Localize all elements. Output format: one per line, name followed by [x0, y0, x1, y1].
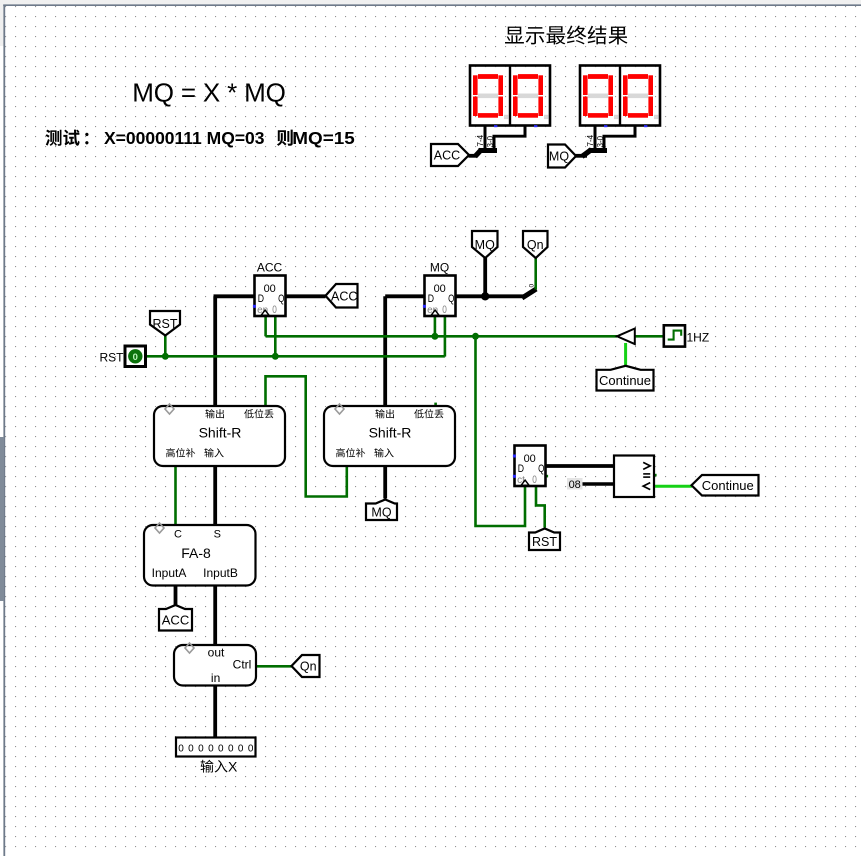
svg-text:Shift-R: Shift-R [199, 425, 242, 441]
svg-text:RST: RST [532, 535, 557, 549]
svg-text:0: 0 [238, 744, 244, 755]
svg-text:ACC: ACC [434, 149, 460, 163]
svg-text:Shift-R: Shift-R [369, 425, 412, 441]
svg-text:Continue: Continue [599, 373, 651, 388]
svg-text:C: C [174, 529, 182, 541]
svg-text:0: 0 [133, 352, 138, 363]
svg-text:MQ = X * MQ: MQ = X * MQ [132, 78, 285, 108]
svg-text:0: 0 [529, 284, 536, 288]
svg-text:0: 0 [188, 744, 194, 755]
svg-text:MQ: MQ [371, 505, 391, 519]
svg-text:Continue: Continue [702, 478, 754, 493]
svg-text:D: D [428, 293, 434, 305]
svg-text:out: out [208, 646, 225, 660]
svg-text:D: D [258, 293, 264, 305]
svg-text:S: S [214, 529, 221, 541]
svg-text:Qn: Qn [527, 238, 544, 252]
svg-text:X: X [228, 759, 238, 775]
svg-text:MQ: MQ [549, 150, 569, 164]
svg-text:00: 00 [434, 283, 446, 295]
svg-text:InputB: InputB [203, 566, 238, 580]
svg-text:0: 0 [178, 744, 184, 755]
svg-text:0: 0 [218, 744, 224, 755]
svg-text:InputA: InputA [152, 566, 187, 580]
svg-text:Ctrl: Ctrl [233, 658, 252, 672]
svg-text:ACC: ACC [257, 261, 283, 275]
svg-text:0: 0 [198, 744, 204, 755]
svg-text:0: 0 [272, 304, 277, 316]
svg-text:3-0: 3-0 [486, 135, 495, 147]
svg-text:1HZ: 1HZ [687, 331, 710, 345]
svg-text:3-0: 3-0 [596, 135, 605, 147]
svg-text:MQ=15: MQ=15 [292, 128, 355, 148]
svg-text:in: in [211, 671, 220, 685]
svg-text:RST: RST [153, 317, 178, 331]
svg-text:0: 0 [208, 744, 214, 755]
svg-text:0: 0 [532, 474, 537, 486]
svg-text:08: 08 [569, 479, 581, 491]
svg-text:ACC: ACC [331, 289, 357, 303]
svg-text:ACC: ACC [162, 612, 189, 627]
svg-text:MQ: MQ [475, 238, 495, 252]
svg-text:0: 0 [442, 304, 447, 316]
svg-text:MQ: MQ [430, 261, 449, 275]
svg-text:X=00000111 MQ=03: X=00000111 MQ=03 [104, 128, 265, 148]
svg-text:00: 00 [524, 453, 536, 465]
svg-text:Qn: Qn [300, 660, 317, 674]
svg-text:00: 00 [264, 283, 276, 295]
svg-text:0: 0 [248, 744, 254, 755]
svg-text:7-4: 7-4 [586, 134, 595, 146]
svg-text:Q: Q [538, 463, 545, 475]
svg-text:Q: Q [278, 293, 285, 305]
svg-text:7-4: 7-4 [476, 134, 485, 146]
svg-text:FA-8: FA-8 [181, 545, 211, 561]
svg-text:Q: Q [448, 293, 455, 305]
svg-text:0: 0 [228, 744, 234, 755]
svg-text:D: D [518, 463, 524, 475]
svg-text:RST: RST [100, 351, 125, 365]
